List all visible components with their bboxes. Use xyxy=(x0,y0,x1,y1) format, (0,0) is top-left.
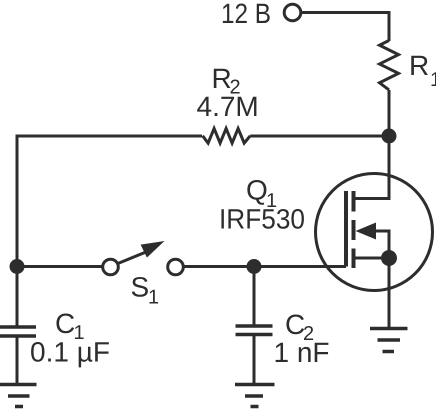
svg-text:Q: Q xyxy=(246,175,268,206)
svg-text:0.1 µF: 0.1 µF xyxy=(30,337,110,368)
svg-text:1: 1 xyxy=(430,69,436,91)
label S1 xyxy=(131,272,160,309)
Q1 channel segment middle xyxy=(352,220,356,240)
svg-text:1: 1 xyxy=(148,287,159,309)
label 1 nF xyxy=(274,337,330,368)
svg-text:12 B: 12 B xyxy=(221,0,271,29)
label C1 xyxy=(55,308,85,344)
svg-text:S: S xyxy=(131,272,150,303)
Q1 source stub xyxy=(354,257,390,260)
svg-text:IRF530: IRF530 xyxy=(219,204,305,235)
switch S1 right contact xyxy=(168,259,184,275)
wire R2 left segment and left rail down xyxy=(17,136,202,267)
wire left node down to C1 top plate xyxy=(16,267,19,328)
label 12 B xyxy=(221,0,271,29)
resistor R2 xyxy=(203,129,251,144)
transistor Q1 circle xyxy=(316,174,433,291)
wire drain node to Q1 drain xyxy=(354,136,390,199)
svg-text:4.7M: 4.7M xyxy=(197,91,259,122)
resistor R1 xyxy=(380,41,399,90)
ground under C2 xyxy=(235,385,275,407)
label C2 xyxy=(285,309,314,345)
junction drain node xyxy=(382,129,397,144)
label 0.1 uF xyxy=(30,337,110,368)
wire R1 bottom to drain node xyxy=(388,90,391,136)
switch S1 lever xyxy=(118,241,165,264)
wire switch to gate xyxy=(184,265,347,268)
svg-text:C: C xyxy=(55,308,75,339)
label Q1 xyxy=(246,175,277,213)
wire C2 bottom plate to ground xyxy=(253,335,256,385)
wire C2 node down to C2 top plate xyxy=(253,267,256,327)
junction source node xyxy=(381,250,397,266)
Q1 channel segment bottom xyxy=(352,249,356,269)
svg-text:R: R xyxy=(409,50,429,81)
label 4.7M xyxy=(197,91,259,122)
label IRF530 xyxy=(219,204,305,235)
wire C1 bottom plate to ground xyxy=(16,336,19,384)
svg-text:1 nF: 1 nF xyxy=(274,337,330,368)
capacitor C1 xyxy=(0,327,36,336)
Q1 gate bar xyxy=(344,191,348,267)
wire source to ground xyxy=(388,258,391,327)
wire from supply terminal to R1 top xyxy=(302,13,389,42)
Q1 body connection with arrow xyxy=(356,223,390,257)
wire R2 right segment xyxy=(250,135,389,138)
capacitor C2 xyxy=(236,326,273,335)
label R1 xyxy=(409,50,436,91)
junction C2 node xyxy=(247,259,262,274)
switch S1 left contact xyxy=(103,259,119,275)
junction left node xyxy=(10,259,25,274)
node +12V supply terminal xyxy=(284,4,301,21)
Q1 channel segment top xyxy=(352,191,356,212)
wire left node to switch xyxy=(17,265,102,268)
ground under C1 xyxy=(0,385,37,407)
label R2 xyxy=(212,63,241,99)
ground under Q1 source xyxy=(370,329,408,352)
